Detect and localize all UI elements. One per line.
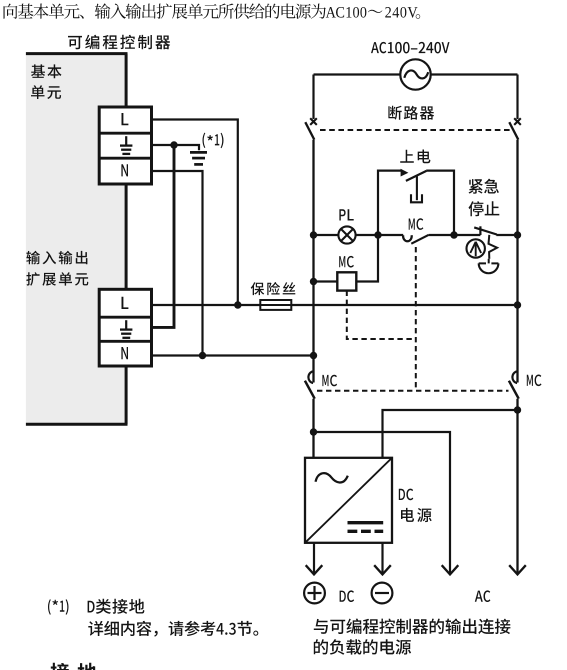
terminal DC minus [372,583,393,604]
junction: left rail to AC load branch [310,428,317,435]
linkage: aux contact down to main contacts (dashed) [415,247,417,391]
wire MC aux to node B to emergency stop [429,234,481,236]
junction: emergency stop to right rail [514,231,521,238]
linkage: coil MC to aux contact (dashed) [347,291,416,339]
wire DC- output [381,543,383,574]
wire to AC load arrow 1 [314,432,451,574]
right rail (L conductor) [516,140,518,383]
wire AC source to right rail [431,73,518,75]
DC power supply U1 (AC/DC converter) [305,458,392,543]
label MC (aux contact) [409,218,424,230]
wire lamp PL to node A [356,234,378,236]
pin label N (TB2) [121,347,128,359]
breaker mechanical link (dashed) [320,129,511,131]
terminal block TB2 (I/O extension unit: L, earth, N) [99,289,151,366]
wire TB1.N to vertical drop [152,171,203,356]
emergency stop SB2 紧急停止 (NC, mushroom head) [467,226,518,273]
terminal DC plus [304,583,325,604]
junction: earth wire to TB2 earth bus [170,141,177,148]
wire left rail to coil MC [314,280,338,282]
left rail top segment [312,75,314,120]
pin label L (TB2) [122,297,129,309]
contact MC main (right pole) [509,371,519,398]
label MC (right main) [527,375,542,387]
wire coil MC to node A [356,235,378,282]
junction: N wire joins left rail [310,352,317,359]
label PL [339,209,353,220]
label AC100-240V [371,42,450,54]
contact MC main (left pole) [305,371,315,398]
label 可编程控制器 [68,35,170,50]
left rail below MC main to DC supply [312,399,314,458]
label 上电 [400,150,430,164]
wire right rail to DC supply input [383,410,518,458]
wire TB1.earth to earth electrode [152,145,200,150]
fuse F1 保险丝 [260,300,291,310]
pin label L (TB1) [122,113,129,125]
junction: TB1.L drop joins fuse line [234,301,241,308]
wire left rail to lamp PL [314,234,339,236]
label 基本单元 [31,64,62,78]
arrowhead DC- [374,565,391,574]
arrowhead AC load 1 [442,565,459,574]
label 断路器 [388,106,434,120]
breaker QF1 left pole [305,118,317,139]
lamp PL (indicator) [338,226,355,243]
node B junction [450,231,457,238]
wire earth bus down to TB2.earth [152,145,175,327]
label 紧急停止 [469,179,499,194]
note 详细内容，请参考4.3节。 [88,621,258,637]
arrowhead DC+ [306,565,323,574]
AC source G1 [400,59,430,89]
junction: fuse line joins right rail [514,301,521,308]
earth symbol inside TB1 [120,136,132,154]
caption 与可编程控制器的输出连接的负载的电源 [314,619,511,635]
right rail top segment [516,75,518,120]
label 保险丝 [251,282,296,295]
contact MC auxiliary (self-hold, NO) [403,235,429,244]
PLC enclosure box (可编程控制器) [26,54,126,424]
earth electrode (*1) D-class ground [190,152,207,164]
wire AC source to left rail [314,73,401,75]
caption: top paragraph 向基本单元... [4,3,421,18]
terminal block TB1 (basic unit: L, earth, N) [99,107,151,184]
label 输入输出扩展单元 [26,251,87,264]
pushbutton SB1 上电 (start, NO) branch [378,169,454,235]
linkage: main contacts bar (dashed) [317,390,509,392]
label DC 电源 (supply) [399,489,414,501]
label MC (left main) [322,375,337,387]
wire TB2.L / fuse line to right rail [152,304,518,306]
breaker QF1 right pole [509,118,521,139]
wire TB2.N to left rail [152,354,314,356]
contactor coil MC [337,272,356,290]
wire TB1.L to vertical drop [152,120,238,306]
right rail below MC main [516,399,518,574]
junction: left rail to PL branch [310,231,317,238]
label DC (between plus and minus) [340,590,355,602]
wire DC+ output [313,543,315,574]
label AC [475,590,491,602]
junction: TB1.N drop joins N wire [199,352,206,359]
left rail (N conductor) [312,140,314,383]
junction: right rail to DC supply input [514,406,521,413]
note (*1) D类接地 [48,599,69,614]
earth symbol inside TB2 [120,320,132,338]
wire node A to MC aux contact [378,234,403,236]
arrowhead AC load 2 (right rail) [509,565,526,574]
junction: left rail to coil branch [310,278,317,285]
label MC (coil) [339,256,354,268]
label (*1) [203,133,206,148]
node A junction [374,231,381,238]
pin label N (TB1) [121,164,128,176]
partial heading 接地 (cut at bottom edge) [51,663,97,670]
